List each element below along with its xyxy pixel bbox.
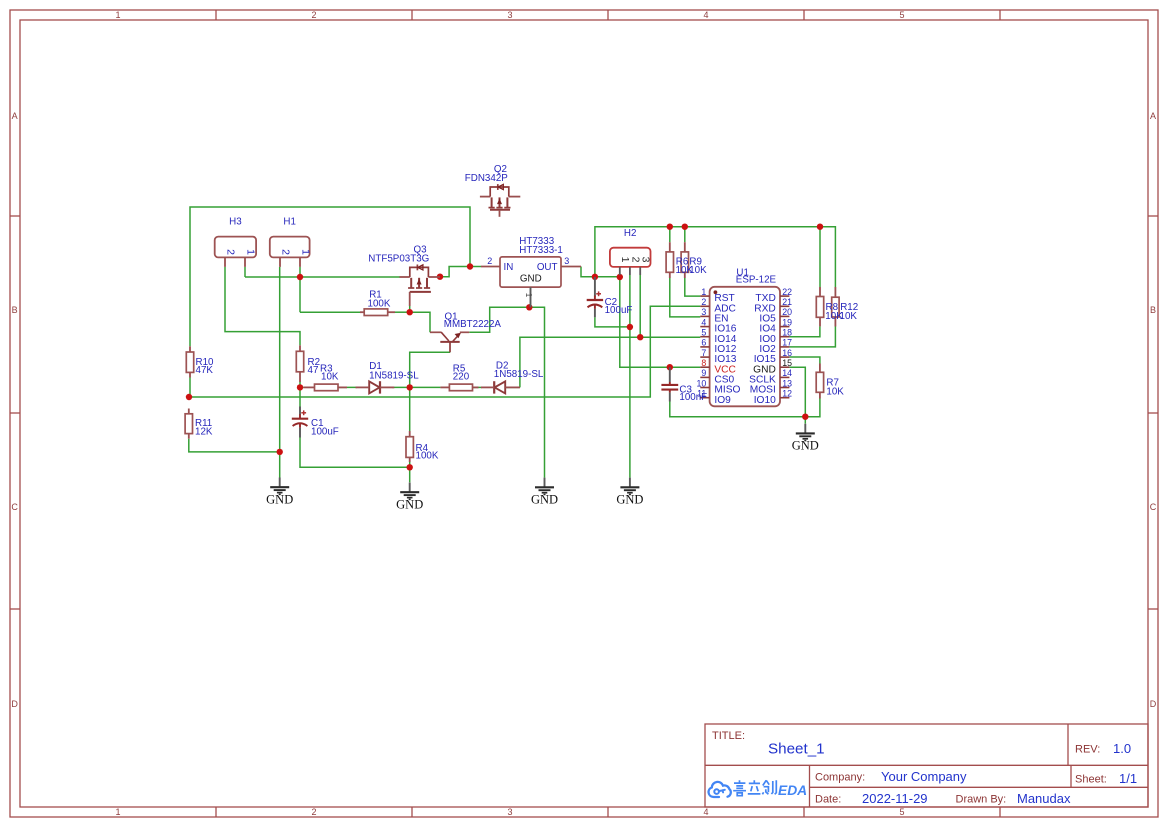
svg-text:Sheet:: Sheet:: [1075, 774, 1107, 786]
svg-text:16: 16: [782, 348, 792, 358]
svg-text:Date:: Date:: [815, 794, 841, 806]
svg-text:2: 2: [224, 249, 236, 255]
svg-text:10K: 10K: [689, 265, 707, 276]
svg-text:2: 2: [629, 257, 641, 263]
svg-text:H3: H3: [229, 217, 242, 228]
svg-text:6: 6: [701, 338, 706, 348]
svg-text:12K: 12K: [195, 427, 213, 438]
svg-text:Drawn By:: Drawn By:: [956, 794, 1007, 806]
svg-text:H1: H1: [283, 217, 296, 228]
svg-text:10K: 10K: [321, 372, 339, 383]
svg-text:ESP-12E: ESP-12E: [736, 275, 777, 286]
svg-text:21: 21: [782, 297, 792, 307]
svg-text:5: 5: [899, 807, 904, 817]
svg-text:2: 2: [311, 807, 316, 817]
svg-text:GND: GND: [396, 498, 423, 512]
svg-text:220: 220: [453, 372, 470, 383]
svg-text:13: 13: [782, 378, 792, 388]
svg-text:10K: 10K: [840, 311, 858, 322]
svg-text:10K: 10K: [826, 387, 844, 398]
svg-text:47: 47: [308, 365, 319, 376]
svg-text:HT7333-1: HT7333-1: [519, 245, 563, 256]
svg-text:20: 20: [782, 307, 792, 317]
svg-text:OUT: OUT: [537, 262, 558, 273]
svg-text:IN: IN: [504, 262, 514, 273]
svg-text:100K: 100K: [416, 450, 439, 461]
svg-text:B: B: [1150, 305, 1156, 315]
svg-text:TITLE:: TITLE:: [712, 730, 745, 742]
svg-text:1: 1: [244, 249, 256, 255]
svg-text:3: 3: [507, 10, 512, 20]
svg-text:100uF: 100uF: [605, 305, 633, 316]
svg-text:15: 15: [782, 358, 792, 368]
svg-text:B: B: [12, 305, 18, 315]
svg-text:C: C: [1150, 502, 1157, 512]
svg-text:2022-11-29: 2022-11-29: [862, 791, 928, 806]
svg-text:1: 1: [115, 10, 120, 20]
svg-text:100uF: 100uF: [311, 426, 339, 437]
svg-text:3: 3: [640, 257, 652, 263]
svg-text:4: 4: [703, 807, 708, 817]
svg-text:1: 1: [299, 249, 311, 255]
svg-text:REV:: REV:: [1075, 744, 1100, 756]
svg-text:1N5819-SL: 1N5819-SL: [369, 370, 419, 381]
svg-text:4: 4: [703, 10, 708, 20]
svg-text:A: A: [12, 111, 18, 121]
svg-text:22: 22: [782, 287, 792, 297]
svg-text:2: 2: [279, 249, 291, 255]
svg-text:IO9: IO9: [714, 395, 731, 406]
svg-text:17: 17: [782, 338, 792, 348]
svg-text:9: 9: [701, 368, 706, 378]
svg-text:Sheet_1: Sheet_1: [768, 741, 825, 758]
svg-text:18: 18: [782, 328, 792, 338]
svg-text:1.0: 1.0: [1113, 741, 1131, 756]
svg-text:GND: GND: [792, 439, 819, 453]
svg-text:10: 10: [697, 378, 707, 388]
svg-text:5: 5: [899, 10, 904, 20]
svg-text:2: 2: [701, 297, 706, 307]
svg-text:1N5819-SL: 1N5819-SL: [494, 369, 544, 380]
svg-text:NTF5P03T3G: NTF5P03T3G: [368, 254, 429, 265]
svg-text:3: 3: [507, 807, 512, 817]
svg-text:EDA: EDA: [778, 783, 807, 798]
svg-text:3: 3: [564, 256, 569, 266]
svg-text:5: 5: [701, 328, 706, 338]
svg-text:3: 3: [701, 307, 706, 317]
svg-text:D: D: [1150, 699, 1157, 709]
svg-text:1: 1: [115, 807, 120, 817]
svg-text:100K: 100K: [368, 299, 391, 310]
svg-text:Company:: Company:: [815, 772, 865, 784]
svg-text:7: 7: [701, 348, 706, 358]
svg-text:GND: GND: [616, 493, 643, 507]
svg-text:GND: GND: [520, 273, 542, 284]
svg-text:2: 2: [487, 256, 492, 266]
svg-text:Your Company: Your Company: [881, 769, 967, 784]
svg-text:11: 11: [697, 389, 706, 399]
svg-text:A: A: [1150, 111, 1156, 121]
svg-text:C: C: [11, 502, 18, 512]
svg-text:Manudax: Manudax: [1017, 791, 1071, 806]
svg-text:8: 8: [701, 358, 706, 368]
svg-text:12: 12: [782, 389, 792, 399]
svg-text:1: 1: [701, 287, 706, 297]
svg-text:IO10: IO10: [754, 395, 776, 406]
svg-text:GND: GND: [531, 493, 558, 507]
svg-text:1: 1: [524, 293, 533, 298]
svg-text:H2: H2: [624, 228, 637, 239]
svg-text:47K: 47K: [196, 365, 214, 376]
svg-text:1/1: 1/1: [1119, 771, 1137, 786]
svg-text:FDN342P: FDN342P: [465, 173, 508, 184]
svg-text:D: D: [11, 699, 18, 709]
svg-text:2: 2: [311, 10, 316, 20]
svg-text:14: 14: [782, 368, 792, 378]
svg-text:GND: GND: [266, 493, 293, 507]
svg-text:19: 19: [782, 317, 792, 327]
svg-text:MMBT2222A: MMBT2222A: [444, 319, 502, 330]
svg-text:4: 4: [701, 317, 706, 327]
